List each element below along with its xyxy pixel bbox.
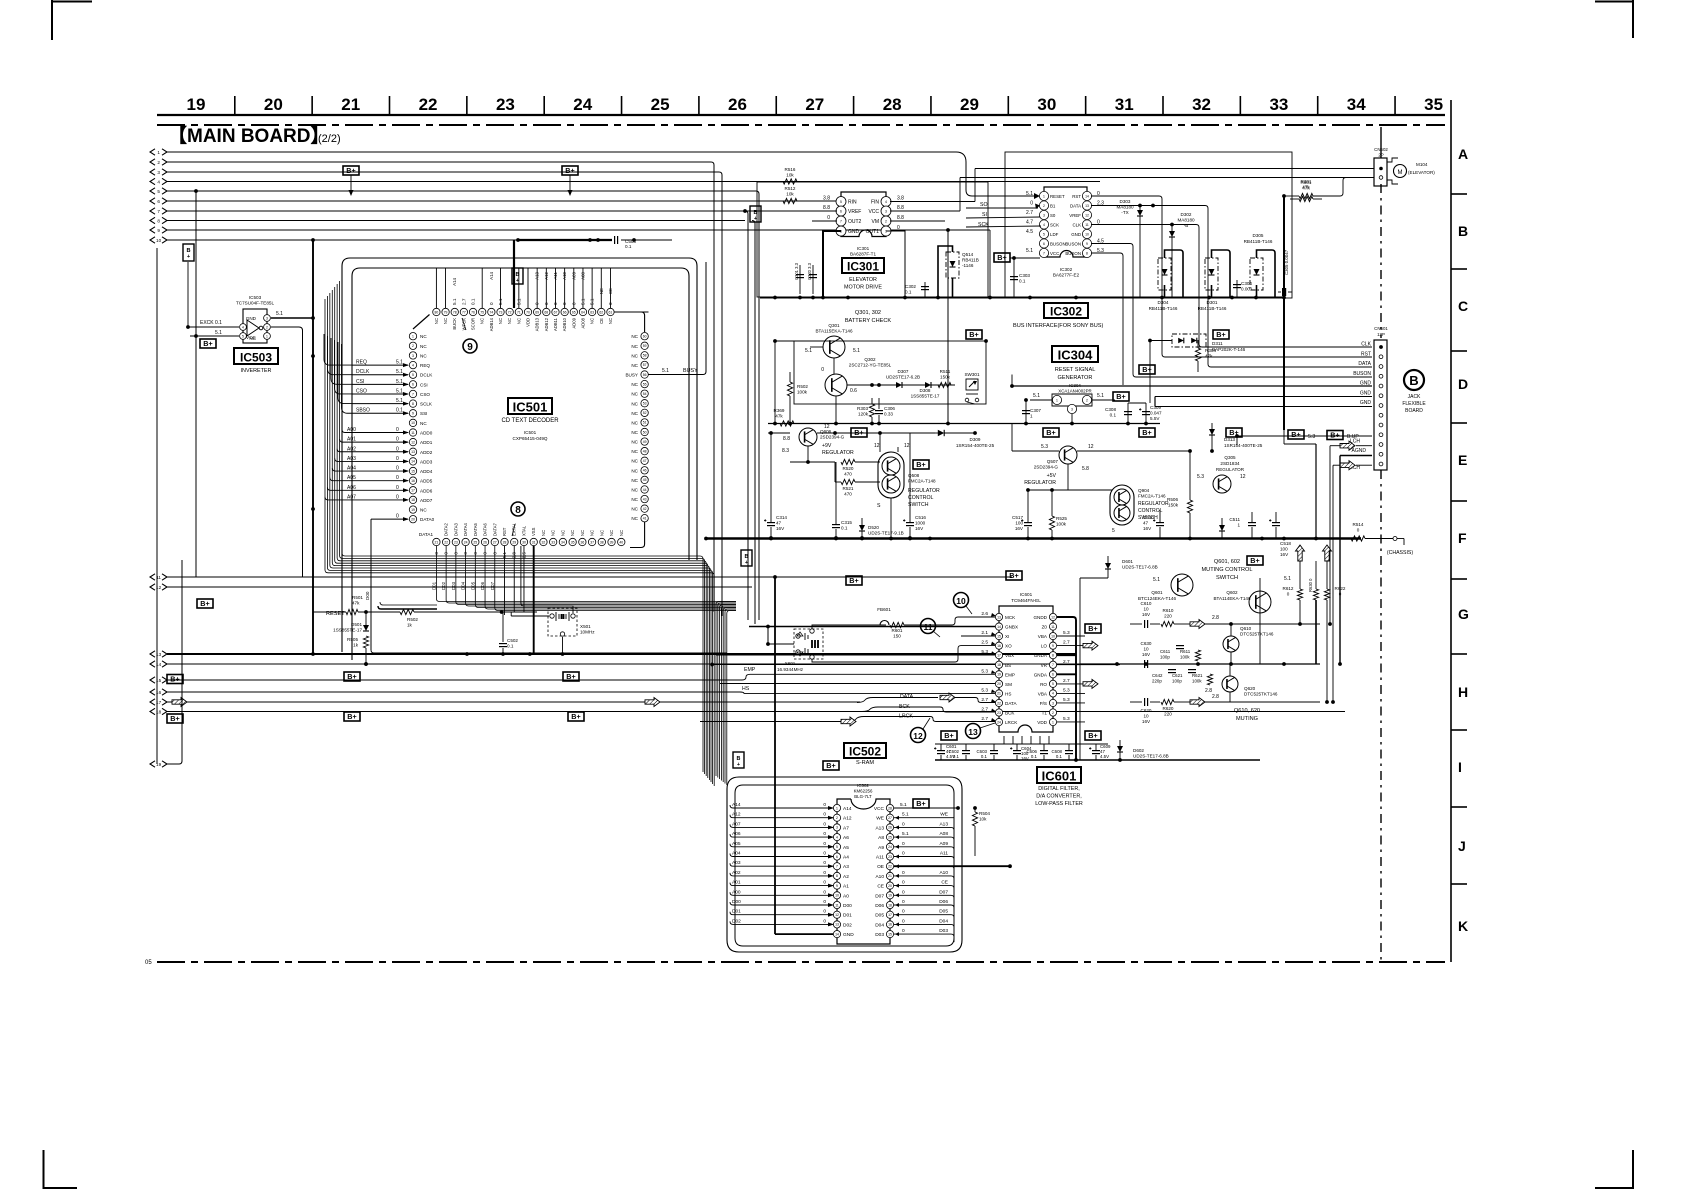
svg-text:FB601: FB601 [877,607,891,612]
svg-text:X501: X501 [580,624,591,629]
BUSY output wire [649,262,707,375]
svg-text:XI: XI [1005,634,1009,639]
svg-text:NC: NC [631,411,638,416]
muting bottom bus [935,759,1260,761]
svg-text:5.1: 5.1 [902,831,909,837]
svg-text:5: 5 [412,373,414,377]
svg-text:220p: 220p [1152,679,1162,684]
svg-text:NC: NC [480,318,485,324]
regulator main ground bus thick [706,537,1361,539]
transistor Q620 DTC525TKT146 [1222,676,1238,692]
svg-text:D: D [1458,376,1468,392]
svg-text:76: 76 [471,310,475,314]
svg-text:LOW-PASS FILTER: LOW-PASS FILTER [1035,801,1083,807]
svg-text:C611: C611 [1160,649,1171,654]
Q514 wires thick [938,246,953,297]
svg-text:5.1: 5.1 [516,298,521,305]
svg-text:S0: S0 [1050,213,1056,218]
connector chevron <4> [150,178,155,184]
svg-text:64: 64 [581,310,585,314]
svg-text:ADB10: ADB10 [562,317,567,331]
svg-text:5.1: 5.1 [853,348,860,354]
svg-text:16V: 16V [1143,526,1152,531]
svg-text:TC9464FN-EL: TC9464FN-EL [1011,598,1041,603]
svg-text:47: 47 [1143,521,1149,526]
svg-text:0.1: 0.1 [625,244,632,249]
svg-text:5.3: 5.3 [981,668,988,674]
svg-text:21: 21 [888,874,892,878]
svg-text:5.3: 5.3 [981,649,988,655]
svg-text:15: 15 [888,932,892,936]
svg-text:Q904: Q904 [1138,488,1150,493]
IC501 corner wire pin40 to pin41 [630,522,645,548]
svg-text:D02: D02 [441,581,446,590]
svg-text:HS: HS [1005,691,1011,696]
svg-text:2: 2 [157,160,160,165]
svg-text:2SD2394-G: 2SD2394-G [1034,465,1059,470]
svg-text:5.1: 5.1 [805,348,812,354]
svg-text:100k: 100k [1192,679,1202,684]
svg-text:2.1: 2.1 [981,630,988,636]
svg-text:1: 1 [1043,194,1045,198]
svg-text:13P: 13P [1377,332,1385,337]
svg-text:5.1: 5.1 [902,812,909,818]
svg-text:2.7: 2.7 [1063,640,1070,646]
svg-text:52: 52 [643,411,647,415]
svg-text:16.9344MHz: 16.9344MHz [777,667,804,672]
wire VBX into IC601 [716,654,995,656]
wire net 9 [167,229,948,231]
IC501 top pin row pins 80-61 [433,308,440,315]
svg-text:22: 22 [997,701,1001,705]
wire net19 short with corner up [167,560,182,764]
svg-text:A14: A14 [843,806,852,812]
svg-text:0: 0 [489,302,494,305]
svg-text:CXP65415-049Q: CXP65415-049Q [513,436,548,441]
svg-text:A1: A1 [843,884,849,890]
svg-text:B+: B+ [566,672,575,681]
IC302 boxed label [1044,303,1088,318]
svg-text:C: C [1458,298,1468,314]
connector chevron <6> [150,198,155,204]
svg-text:A05: A05 [347,475,356,481]
svg-text:9: 9 [467,342,473,353]
svg-text:C516: C516 [915,515,926,520]
svg-text:B+: B+ [170,675,179,684]
svg-text:IC501: IC501 [513,400,548,415]
svg-text:R501: R501 [352,595,363,600]
svg-text:XTAL: XTAL [521,525,526,536]
svg-text:NC: NC [631,363,638,368]
svg-text:5: 5 [836,845,838,849]
svg-text:49: 49 [643,440,647,444]
svg-text:120k: 120k [858,412,869,417]
svg-text:GENERATOR: GENERATOR [1058,375,1093,381]
svg-text:12: 12 [874,443,880,449]
bus loop outer around IC501 [342,258,697,652]
svg-text:3: 3 [412,354,414,358]
svg-text:A3: A3 [843,864,849,870]
connector chevron <13> [150,651,155,657]
svg-text:Q514: Q514 [962,252,974,257]
CN601 pin 3 DATA [1379,365,1383,369]
capacitor C503 [614,236,616,244]
svg-text:SI: SI [982,212,987,218]
IC502 outer bus rounded rect [727,777,962,952]
IC502 left external wires [730,805,833,808]
svg-text:0: 0 [902,889,905,895]
CN601 AGND wire [1340,455,1372,457]
svg-text:27: 27 [888,816,892,820]
wires into CN502 [975,168,1374,170]
svg-text:0: 0 [902,880,905,886]
svg-text:61: 61 [609,310,613,314]
svg-text:5.1: 5.1 [396,369,403,375]
connector chevron <10> [150,237,155,243]
svg-text:65: 65 [572,310,576,314]
svg-text:D602: D602 [1133,748,1144,753]
svg-text:27: 27 [805,95,824,114]
svg-text:47k: 47k [352,601,360,606]
B+ box D311 [1213,330,1229,339]
capacitor C516 1000 16V [906,522,914,524]
svg-text:A02: A02 [732,870,741,876]
IC501 left address wires A00-A07 [342,430,408,433]
wire net17 with block arrows [167,701,860,703]
svg-text:ADD3: ADD3 [420,459,433,464]
svg-text:C518: C518 [1280,541,1291,546]
svg-text:DATA1: DATA1 [419,532,434,537]
svg-text:0.1: 0.1 [471,298,476,305]
IC302 left pins [1039,191,1048,200]
svg-text:CSI: CSI [356,379,364,385]
svg-text:0.1: 0.1 [981,754,988,759]
svg-text:16V: 16V [915,526,924,531]
svg-text:GND: GND [1360,390,1372,396]
svg-text:60: 60 [643,335,647,339]
svg-text:16V: 16V [1015,526,1024,531]
svg-text:Q610: Q610 [1240,626,1252,631]
svg-text:Q301, 302: Q301, 302 [855,310,881,316]
svg-text:35: 35 [571,540,575,544]
wire net2 drop [711,162,714,612]
svg-text:UD2STE17-6.2B: UD2STE17-6.2B [886,375,920,380]
svg-text:5.1: 5.1 [452,298,457,305]
svg-text:DATA7: DATA7 [492,522,497,536]
svg-text:GNDA: GNDA [1034,653,1048,658]
capacitor C307 1 [1022,410,1030,412]
connector chevron <7> [150,208,155,214]
svg-text:A14: A14 [489,271,494,279]
IC302 input wires [966,207,1038,209]
wire net8 drop [752,221,755,625]
svg-text:D05: D05 [470,581,475,590]
IC501 XTAL stubs down [504,546,506,615]
svg-text:BUS INTERFACE(FOR SONY BUS): BUS INTERFACE(FOR SONY BUS) [1013,323,1103,329]
svg-text:470: 470 [844,492,852,497]
svg-text:6: 6 [412,383,414,387]
svg-text:4: 4 [836,835,838,839]
svg-text:13: 13 [835,923,839,927]
svg-text:VREF: VREF [848,209,861,215]
capacitor C304 0.001 [1233,284,1241,286]
svg-text:+9V: +9V [822,443,832,449]
svg-text:D04: D04 [875,922,884,928]
svg-text:22: 22 [444,540,448,544]
svg-text:GNDA: GNDA [1034,672,1048,677]
svg-text:21: 21 [435,540,439,544]
svg-text:DATA6: DATA6 [483,522,488,536]
svg-text:2: 2 [266,325,268,329]
svg-text:REQ: REQ [356,360,367,366]
svg-text:VSS: VSS [531,527,536,536]
IC601 right value wires [1057,635,1085,637]
svg-text:57: 57 [643,363,647,367]
svg-text:NC: NC [420,344,427,349]
svg-text:0.1: 0.1 [905,290,912,295]
svg-text:OUT2: OUT2 [848,219,862,225]
svg-text:A11: A11 [876,855,885,861]
svg-text:0: 0 [396,494,399,500]
svg-text:79: 79 [444,310,448,314]
svg-text:15: 15 [156,678,162,683]
svg-text:CD TEXT DECODER: CD TEXT DECODER [501,418,559,424]
crop mark top-right [1595,1,1633,3]
svg-text:B+: B+ [826,761,835,770]
top dash-dot border [157,124,1445,126]
bus vertical bundle to IC502 [716,602,736,777]
svg-text:BUSY: BUSY [683,368,698,374]
svg-text:3: 3 [1071,407,1073,411]
svg-text:25: 25 [888,835,892,839]
IC501 DATA0 wire [371,518,408,520]
up arrow 1 [1296,545,1305,561]
svg-text:100p: 100p [1160,655,1170,660]
IC302 body [1044,187,1087,257]
svg-text:D303: D303 [1120,199,1131,204]
svg-text:SCLK: SCLK [420,402,433,407]
svg-text:B+: B+ [1046,428,1055,437]
svg-text:RESET: RESET [1050,194,1065,199]
svg-text:SCOR: SCOR [471,318,476,330]
svg-text:-TX: -TX [1121,210,1128,215]
svg-text:10: 10 [1143,714,1149,719]
svg-text:+: + [737,762,740,768]
svg-text:8.8: 8.8 [897,205,904,211]
svg-text:13: 13 [156,652,162,657]
svg-text:ADB13: ADB13 [535,317,540,331]
svg-text:GND: GND [1071,232,1081,237]
svg-text:(CHASSIS): (CHASSIS) [1387,550,1414,556]
svg-text:NC: NC [631,430,638,435]
svg-text:CONTROL: CONTROL [908,495,933,501]
svg-text:74: 74 [489,310,493,314]
svg-text:REGULATOR: REGULATOR [822,450,854,456]
svg-text:VDD: VDD [526,318,531,327]
connector chevron <12> [150,584,155,590]
svg-text:42: 42 [643,507,647,511]
svg-text:CE: CE [941,880,948,886]
svg-text:DATA: DATA [1070,204,1081,209]
connector chevron <3> [150,169,155,175]
svg-text:A9: A9 [878,845,884,851]
diode D601 UD2S-TE17-6.8B [1105,563,1111,569]
svg-text:VBX: VBX [1005,653,1014,658]
svg-text:5.3: 5.3 [1063,687,1070,693]
svg-text:A08: A08 [580,271,585,279]
svg-text:150k: 150k [940,375,951,380]
svg-text:5.1: 5.1 [276,311,283,317]
svg-text:4: 4 [885,200,887,204]
svg-text:ADD0: ADD0 [420,431,433,436]
svg-text:48: 48 [643,449,647,453]
svg-text:100: 100 [1015,521,1023,526]
svg-text:WE: WE [876,816,884,822]
svg-text:NC: NC [551,530,556,536]
svg-text:C315: C315 [841,520,852,525]
svg-text:C610: C610 [1141,601,1152,606]
svg-text:26: 26 [728,95,747,114]
svg-text:TC7SU04F-TE85L: TC7SU04F-TE85L [236,301,274,306]
svg-text:A14: A14 [732,802,741,808]
wire net 4 [167,181,1100,183]
transistor pack Q508 FMC2A-T148 [878,452,904,498]
IC503 pin 3 GND [264,315,271,322]
svg-text:R501: R501 [1301,180,1312,185]
svg-text:(2/2): (2/2) [318,133,341,145]
svg-text:B+: B+ [200,599,209,608]
svg-text:NC: NC [631,468,638,473]
svg-text:R620: R620 [1163,706,1174,711]
IC601 right pins [1049,613,1056,620]
circled 10 callout [954,593,969,608]
IC501 right pin column pins 60-41 [641,333,648,340]
diode D602 UD2S-TE17-6.8B [1117,746,1123,752]
svg-text:R369: R369 [774,408,785,413]
svg-text:1SS855TE-17: 1SS855TE-17 [911,394,940,399]
svg-text:NC: NC [631,353,638,358]
svg-text:5: 5 [840,200,842,204]
capacitor C303 0.1 [1010,276,1018,278]
svg-text:RIN: RIN [848,200,857,206]
svg-text:5.1: 5.1 [1026,248,1033,254]
svg-text:16V: 16V [1021,756,1029,761]
svg-text:SM: SM [1005,682,1012,687]
Q302 emitter wire [835,396,837,424]
svg-text:72: 72 [508,310,512,314]
svg-text:5: 5 [1043,232,1045,236]
svg-text:R505: R505 [347,637,358,642]
svg-text:NC: NC [560,530,565,536]
capacitor C511 1 [1248,522,1256,524]
svg-text:67: 67 [554,310,558,314]
svg-text:BTA115EKA-T146: BTA115EKA-T146 [815,329,853,334]
svg-text:NC: NC [631,392,638,397]
svg-text:A10: A10 [875,874,884,880]
svg-text:10: 10 [1085,232,1089,236]
svg-text:5.3: 5.3 [1063,716,1070,722]
svg-text:28: 28 [883,95,902,114]
svg-text:VR: VR [1041,663,1048,668]
svg-text:0: 0 [821,367,824,373]
address bus verticals and horizontal band [342,278,703,772]
transistor Q610 DTC525TKT146 [1223,636,1239,652]
zener D513 down [1219,525,1225,531]
IC301 right pins [881,197,891,207]
svg-text:6: 6 [157,199,160,204]
svg-text:33: 33 [551,540,555,544]
svg-text:D07: D07 [490,581,495,590]
svg-text:6: 6 [1043,242,1045,246]
wire net5 branch to motor drive [948,229,990,231]
svg-text:77: 77 [462,310,466,314]
svg-text:5.1: 5.1 [1284,576,1291,582]
block arrow RO [1083,679,1098,688]
Q508 wires [879,447,881,452]
svg-text:M104: M104 [1416,162,1428,167]
svg-text:NC: NC [590,318,595,324]
svg-text:0: 0 [902,899,905,905]
svg-text:8: 8 [1052,654,1054,658]
svg-text:D311: D311 [1212,341,1223,346]
IC304 wires [1030,399,1052,401]
svg-text:NC: NC [631,516,638,521]
connector chevron <8> [150,217,155,223]
svg-text:GND: GND [848,229,860,235]
svg-text:0: 0 [823,841,826,847]
IC601 bottom cap row wires [935,743,1108,745]
svg-text:2: 2 [836,816,838,820]
svg-text:2: 2 [1052,711,1054,715]
svg-text:1: 1 [157,150,160,155]
svg-text:D601: D601 [1122,559,1133,564]
svg-text:2SD2394-G: 2SD2394-G [820,435,845,440]
svg-text:SWITCH: SWITCH [908,502,929,508]
svg-text:B+: B+ [916,799,925,808]
CN601 pin 12 AGND [1379,452,1383,456]
IC501 top pin stubs [435,268,437,308]
wire net14 [167,663,1320,665]
svg-text:LDF: LDF [1050,232,1059,237]
svg-text:14: 14 [411,460,415,464]
svg-text:SBSO: SBSO [356,408,370,414]
svg-text:53: 53 [643,402,647,406]
svg-text:0: 0 [823,851,826,857]
svg-text:0: 0 [396,456,399,462]
svg-text:BA6287F-T1: BA6287F-T1 [850,252,876,257]
svg-text:DTC525TKT146: DTC525TKT146 [1240,632,1274,637]
capacitor C314 47 16V [767,522,775,524]
IC502 left pins [833,804,840,811]
up arrow 2 [1323,545,1332,561]
svg-text:19: 19 [997,673,1001,677]
svg-text:NC: NC [507,318,512,324]
svg-text:C301 3.3: C301 3.3 [794,262,799,280]
svg-text:8: 8 [1086,251,1088,255]
svg-text:0: 0 [535,302,540,305]
svg-text:2.8: 2.8 [1212,694,1219,700]
svg-text:5.1: 5.1 [1033,393,1040,399]
svg-text:VCC: VCC [1050,251,1059,256]
svg-text:C642: C642 [1152,673,1163,678]
svg-text:REGULATOR: REGULATOR [908,488,940,494]
svg-text:0: 0 [823,899,826,905]
svg-text:0: 0 [902,870,905,876]
wire net1 arrowhead RESET [1034,193,1040,199]
svg-text:D07: D07 [875,893,884,899]
diode D309 1SR154-400TE-25 [938,430,944,436]
svg-text:32: 32 [542,540,546,544]
